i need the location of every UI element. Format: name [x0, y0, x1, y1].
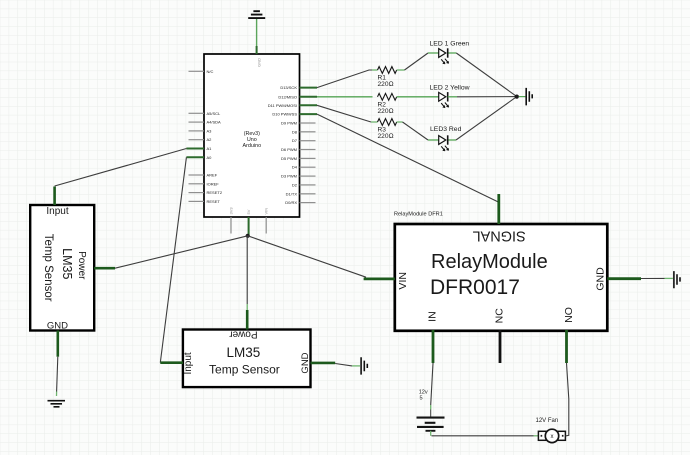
wire junction to LM35 U3 Power [246, 236, 248, 310]
wire R3 to LED3 [403, 122, 429, 140]
svg-text:A2: A2 [207, 137, 213, 142]
Arduino right grey pins D9..D0 [300, 123, 316, 203]
svg-text:D2: D2 [292, 182, 298, 187]
resistor R3 220Ω [371, 119, 403, 140]
wire battery - to fan [432, 435, 540, 437]
svg-text:NC: NC [493, 308, 505, 324]
ground GND3 (left LM35) [48, 401, 66, 407]
svg-text:N/C: N/C [207, 69, 214, 74]
resistor R1 220Ω [372, 67, 405, 88]
wire LM35 U2 Input to Arduino A1 [55, 149, 187, 187]
svg-text:D3 PWM: D3 PWM [281, 174, 297, 179]
svg-text:5: 5 [420, 395, 423, 401]
svg-text:RelayModule: RelayModule [431, 251, 548, 273]
wire LED3 to ground node [456, 97, 517, 140]
pin: U3 Power (top) [246, 310, 249, 330]
svg-text:3V3: 3V3 [229, 207, 234, 215]
node: LED common cathode junction [515, 95, 519, 99]
svg-text:Temp Sensor: Temp Sensor [209, 362, 280, 376]
LED D1 green [428, 41, 469, 65]
pin: relay SIGNAL (top) [497, 194, 500, 224]
wire junction to LED ground [519, 96, 526, 98]
pin: relay VIN (left) [364, 277, 395, 280]
wire LED1 to ground node [456, 53, 517, 97]
svg-text:D10 PWM/SS: D10 PWM/SS [272, 112, 297, 117]
svg-text:LM35: LM35 [60, 248, 74, 279]
svg-text:D6 PWM: D6 PWM [281, 147, 297, 152]
pin A0 (green) [186, 156, 204, 158]
wire U2 GND to ground [57, 357, 58, 396]
wire R1 to LED1 [405, 53, 429, 70]
svg-text:D8: D8 [292, 129, 298, 134]
temp sensor U3 LM35 (bottom) [183, 329, 311, 388]
pin A1 (green) [186, 148, 204, 150]
motor M1 12V Fan [536, 418, 566, 443]
pin: U2 GND (bottom) [56, 331, 59, 357]
svg-text:Power: Power [76, 251, 87, 280]
wire D12 to R2 (green row) [317, 96, 373, 98]
svg-text:A5/SCL: A5/SCL [207, 111, 222, 116]
temp sensor U2 LM35 (left) [30, 205, 94, 332]
Arduino left pin labels [207, 69, 223, 204]
svg-text:220Ω: 220Ω [378, 133, 394, 140]
svg-text:AREF: AREF [207, 173, 218, 178]
Arduino bottom pins 3V3 / 5V / VIN [229, 207, 269, 236]
wire junction to relay VIN [248, 236, 366, 277]
svg-text:IN: IN [426, 311, 438, 322]
resistor R2 220Ω [378, 93, 439, 115]
svg-text:D7: D7 [292, 138, 298, 143]
svg-text:A4/SDA: A4/SDA [207, 120, 222, 125]
node: 5V distribution junction [246, 234, 250, 238]
pin D11 PWM/MOSI [300, 104, 318, 106]
wire relay GND to ground [641, 277, 673, 279]
svg-text:GND: GND [300, 352, 311, 373]
LED D3 red [428, 126, 462, 151]
svg-text:D11 PWM/MOSI: D11 PWM/MOSI [268, 103, 297, 108]
svg-text:Input: Input [46, 206, 68, 217]
svg-text:NO: NO [563, 307, 575, 323]
Arduino right pin labels [268, 85, 298, 205]
svg-text:Temp Sensor: Temp Sensor [42, 234, 54, 302]
svg-text:DFR0017: DFR0017 [430, 276, 520, 299]
pin: relay NC (bottom, unconnected) [499, 330, 502, 363]
wire relay IN to battery + [431, 363, 433, 405]
pin D10 PWM/SS [300, 113, 318, 115]
pin D12/MISO [300, 96, 318, 98]
svg-text:D5 PWM: D5 PWM [281, 156, 297, 161]
pin: relay IN (bottom) [432, 330, 435, 363]
wire D13 to R1 [317, 70, 372, 88]
wire D10 to relay SIGNAL [317, 114, 498, 202]
svg-text:A1: A1 [207, 146, 213, 151]
pin: U3 GND (right) [311, 362, 336, 365]
wire LED2 to ground node [457, 96, 517, 98]
svg-text:LED3 Red: LED3 Red [430, 126, 462, 133]
ground GND1 (top, above Arduino) [248, 11, 265, 18]
ground GND2 (LED common) [526, 88, 532, 106]
svg-text:Arduino: Arduino [243, 143, 262, 149]
svg-text:220Ω: 220Ω [378, 81, 394, 88]
svg-text:12V Fan: 12V Fan [536, 418, 559, 424]
svg-text:SIGNAL: SIGNAL [473, 228, 526, 244]
Arduino left grey pins N/C,A5..A2,AREF,IOREF,RESET2,RESET [189, 71, 205, 201]
wire relay NO to fan [566, 363, 569, 436]
svg-text:LM35: LM35 [227, 345, 261, 360]
pin D13/SCK [300, 87, 318, 89]
op-amp U1 Arduino Uno (Rev3) body [204, 54, 300, 217]
svg-text:GND: GND [257, 58, 262, 67]
wire U3 GND to ground [335, 364, 360, 366]
svg-text:LED 1 Green: LED 1 Green [430, 41, 470, 48]
relay module U4 DFR0017 [394, 212, 607, 331]
svg-text:RESET: RESET [207, 199, 221, 204]
svg-text:RESET2: RESET2 [207, 190, 223, 195]
wire junction to LM35 U2 Power [115, 236, 248, 268]
svg-text:LED 2 Yellow: LED 2 Yellow [430, 84, 470, 91]
svg-text:D0/RX: D0/RX [285, 200, 297, 205]
ground GND4 (bottom LM35) [361, 357, 367, 374]
svg-text:D9 PWM: D9 PWM [281, 121, 297, 126]
pin: U2 Power (right) [94, 267, 115, 270]
battery B1 12v [417, 389, 445, 436]
wire: top ground to Arduino GND pin [256, 19, 258, 46]
svg-text:Power: Power [229, 329, 258, 340]
svg-text:VIN: VIN [397, 272, 409, 290]
svg-text:5V: 5V [246, 209, 251, 214]
pin: U3 Input (left) [160, 361, 183, 364]
svg-text:VIN: VIN [264, 208, 269, 215]
svg-text:RelayModule DFR1: RelayModule DFR1 [394, 212, 443, 218]
pin: relay NO (bottom) [565, 330, 568, 363]
svg-text:GND: GND [47, 321, 68, 332]
svg-text:D4: D4 [292, 165, 298, 170]
svg-text:x: x [551, 434, 554, 440]
svg-text:A0: A0 [207, 155, 213, 160]
svg-text:D13/SCK: D13/SCK [280, 85, 297, 90]
svg-text:D1/TX: D1/TX [286, 191, 298, 196]
ground GND5 (relay) [674, 271, 680, 288]
svg-text:GND: GND [594, 267, 606, 291]
LED D2 yellow [430, 84, 470, 108]
svg-text:D12/MISO: D12/MISO [278, 94, 297, 99]
svg-text:220Ω: 220Ω [378, 108, 394, 115]
wire Arduino A0 to LM35 U3 Input [160, 157, 186, 362]
svg-text:Input: Input [183, 352, 194, 374]
pin GND (Arduino top) [257, 46, 262, 67]
svg-text:A3: A3 [207, 128, 213, 133]
wire D11 to R3 [317, 105, 371, 122]
svg-text:IOREF: IOREF [207, 181, 220, 186]
pin: U2 Input (top) [53, 187, 56, 206]
pin: relay GND (right) [607, 277, 641, 280]
